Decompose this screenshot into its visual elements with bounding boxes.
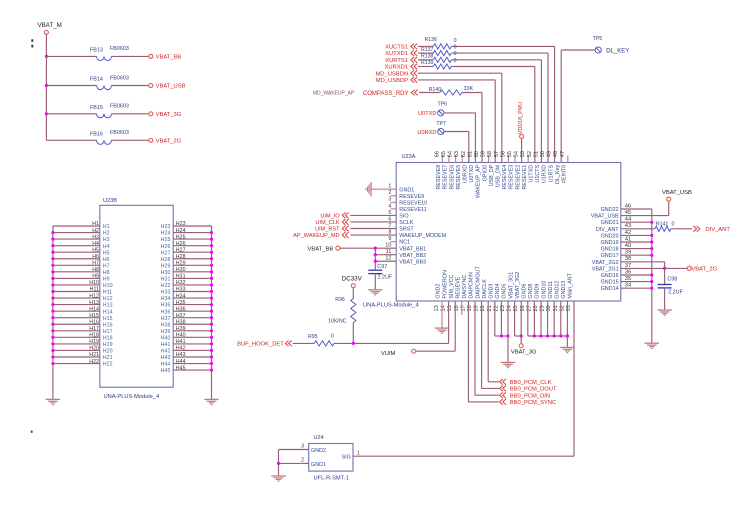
svg-text:H25: H25 bbox=[161, 237, 171, 243]
junction bbox=[210, 349, 213, 352]
svg-text:63: 63 bbox=[454, 151, 460, 157]
svg-text:H8: H8 bbox=[92, 267, 99, 273]
svg-text:U0RXD: U0RXD bbox=[417, 130, 436, 136]
wire bbox=[352, 323, 354, 344]
junction bbox=[51, 296, 54, 299]
net VBAT_3G bbox=[514, 301, 516, 336]
svg-text:NC1: NC1 bbox=[399, 240, 410, 246]
svg-text:MD_USBDP: MD_USBDP bbox=[376, 78, 408, 84]
junction bbox=[210, 310, 213, 313]
junction bbox=[51, 283, 54, 286]
wire bbox=[534, 67, 536, 163]
svg-text:BB0_PCM_SYNC: BB0_PCM_SYNC bbox=[510, 400, 556, 406]
svg-text:GND2: GND2 bbox=[436, 284, 442, 299]
svg-text:GND18: GND18 bbox=[601, 247, 619, 253]
svg-text:52: 52 bbox=[527, 151, 533, 157]
wire right bus stem bbox=[211, 370, 213, 399]
svg-text:50: 50 bbox=[540, 151, 546, 157]
svg-text:13: 13 bbox=[434, 305, 440, 311]
svg-text:VBAT_USB: VBAT_USB bbox=[156, 84, 186, 90]
junction bbox=[650, 273, 653, 276]
junction bbox=[566, 334, 569, 337]
pin H20 bbox=[53, 349, 100, 351]
svg-text:GND8: GND8 bbox=[528, 284, 534, 299]
wire left bus bbox=[52, 226, 54, 364]
svg-text:DAIPCMOUT: DAIPCMOUT bbox=[475, 266, 481, 299]
svg-text:SIM_VCC: SIM_VCC bbox=[449, 275, 455, 299]
svg-text:RESEVE2: RESEVE2 bbox=[515, 165, 521, 190]
svg-text:U1RTS: U1RTS bbox=[548, 164, 554, 182]
svg-text:H42: H42 bbox=[161, 349, 171, 355]
svg-text:#EINT0: #EINT0 bbox=[562, 165, 568, 183]
svg-text:R141: R141 bbox=[656, 222, 669, 228]
svg-text:R139: R139 bbox=[421, 60, 434, 66]
svg-text:0: 0 bbox=[454, 51, 457, 57]
svg-text:47: 47 bbox=[560, 151, 566, 157]
svg-text:H28: H28 bbox=[176, 254, 186, 260]
svg-text:SIG: SIG bbox=[342, 455, 351, 461]
wire bbox=[566, 336, 568, 347]
svg-text:2.2UF: 2.2UF bbox=[378, 274, 393, 280]
svg-text:R137: R137 bbox=[421, 47, 434, 53]
svg-text:H33: H33 bbox=[176, 287, 186, 293]
junction bbox=[210, 369, 213, 372]
pin H18 bbox=[53, 336, 100, 338]
svg-text:Main_ANT: Main_ANT bbox=[568, 272, 574, 298]
svg-text:UNA-PLUS-Module_4: UNA-PLUS-Module_4 bbox=[363, 303, 419, 309]
svg-text:U0RXD: U0RXD bbox=[463, 165, 469, 183]
junction bbox=[51, 342, 54, 345]
svg-text:FB0603: FB0603 bbox=[110, 104, 129, 110]
svg-text:U0TXD: U0TXD bbox=[418, 111, 436, 117]
wire bbox=[350, 214, 396, 216]
svg-text:H31: H31 bbox=[176, 274, 186, 280]
svg-text:H6: H6 bbox=[92, 254, 99, 260]
stub bbox=[514, 155, 516, 162]
pin H43 bbox=[173, 356, 211, 358]
svg-text:0: 0 bbox=[454, 45, 457, 51]
svg-text:0: 0 bbox=[672, 222, 675, 228]
svg-text:C98: C98 bbox=[667, 277, 677, 283]
svg-text:H43: H43 bbox=[161, 355, 171, 361]
svg-text:H44: H44 bbox=[176, 359, 186, 365]
svg-text:GND20: GND20 bbox=[601, 233, 619, 239]
svg-text:UIM_IO: UIM_IO bbox=[320, 214, 340, 220]
svg-text:VBAT_2G2: VBAT_2G2 bbox=[592, 260, 619, 266]
svg-text:VBAT_BB3: VBAT_BB3 bbox=[399, 259, 426, 265]
svg-text:51: 51 bbox=[533, 151, 539, 157]
svg-text:H5: H5 bbox=[103, 250, 110, 256]
svg-text:H32: H32 bbox=[161, 283, 171, 289]
svg-text:H17: H17 bbox=[89, 326, 99, 332]
svg-text:UFL-R-SMT-1: UFL-R-SMT-1 bbox=[314, 476, 349, 482]
svg-text:H42: H42 bbox=[176, 346, 186, 352]
wire bbox=[481, 93, 483, 163]
junction bbox=[559, 334, 562, 337]
border tick 2 bbox=[31, 431, 33, 433]
svg-text:VBAT_BB: VBAT_BB bbox=[308, 246, 334, 252]
pin H6 bbox=[53, 258, 100, 260]
svg-text:RESEVE10: RESEVE10 bbox=[399, 200, 427, 206]
resistor R138 bbox=[418, 59, 434, 61]
svg-text:0: 0 bbox=[331, 334, 334, 340]
svg-text:2: 2 bbox=[301, 458, 304, 464]
svg-text:H34: H34 bbox=[161, 296, 171, 302]
svg-text:H1: H1 bbox=[92, 221, 99, 227]
svg-text:H32: H32 bbox=[176, 280, 186, 286]
wire SIG to Main_ANT bbox=[353, 455, 574, 457]
junction bbox=[51, 264, 54, 267]
connector U23B bbox=[100, 205, 173, 387]
stub bbox=[507, 155, 509, 162]
svg-text:RESEVE8: RESEVE8 bbox=[436, 165, 442, 190]
svg-text:H5: H5 bbox=[92, 247, 99, 253]
ground bbox=[435, 328, 449, 333]
wire VBAT_BB bus bbox=[374, 248, 376, 270]
svg-text:H38: H38 bbox=[176, 319, 186, 325]
svg-text:FB13: FB13 bbox=[90, 47, 103, 53]
junction bbox=[51, 336, 54, 339]
wire GND right group bbox=[527, 301, 529, 336]
svg-text:H10: H10 bbox=[89, 280, 99, 286]
svg-text:XUCTS1: XUCTS1 bbox=[385, 45, 408, 51]
svg-text:UNA-PLUS-Module_4: UNA-PLUS-Module_4 bbox=[104, 394, 160, 400]
junction bbox=[51, 362, 54, 365]
svg-text:H37: H37 bbox=[176, 313, 186, 319]
wire SIM_VCC bbox=[454, 301, 456, 351]
junction bbox=[51, 277, 54, 280]
svg-text:R95: R95 bbox=[308, 334, 318, 340]
stub bbox=[441, 155, 443, 162]
wire bbox=[621, 241, 652, 243]
svg-text:RESEVE1: RESEVE1 bbox=[522, 165, 528, 190]
pin H11 bbox=[53, 291, 100, 293]
wire bbox=[501, 73, 503, 162]
pin H2 bbox=[53, 232, 100, 234]
wire bbox=[350, 228, 396, 230]
svg-text:U24: U24 bbox=[314, 435, 324, 441]
svg-text:VBAT_2G: VBAT_2G bbox=[156, 139, 182, 145]
svg-text:H27: H27 bbox=[161, 250, 171, 256]
junction bbox=[650, 234, 653, 237]
svg-text:GND19: GND19 bbox=[601, 240, 619, 246]
node VBAT_2G bbox=[149, 138, 153, 142]
stub bbox=[488, 155, 490, 162]
resistor R137 bbox=[418, 52, 434, 54]
junction bbox=[51, 244, 54, 247]
svg-text:TP7: TP7 bbox=[436, 121, 446, 127]
junction bbox=[566, 334, 569, 337]
svg-text:3: 3 bbox=[301, 444, 304, 450]
svg-text:60: 60 bbox=[474, 151, 480, 157]
wire GND3 group bbox=[494, 301, 496, 336]
svg-text:U0TXD: U0TXD bbox=[469, 165, 475, 183]
svg-text:GND4: GND4 bbox=[495, 284, 501, 299]
resistor R140 bbox=[419, 92, 440, 94]
svg-text:H26: H26 bbox=[176, 241, 186, 247]
svg-text:H4: H4 bbox=[92, 241, 99, 247]
wire DL_KEY bbox=[561, 49, 595, 51]
junction bbox=[210, 270, 213, 273]
pin H35 bbox=[173, 304, 211, 306]
stub bbox=[461, 155, 463, 162]
pin H38 bbox=[173, 323, 211, 325]
junction bbox=[352, 342, 355, 345]
svg-text:H39: H39 bbox=[161, 329, 171, 335]
svg-text:RESEVE: RESEVE bbox=[456, 276, 462, 298]
wire bbox=[468, 132, 470, 163]
pin H44 bbox=[173, 363, 211, 365]
svg-text:H23: H23 bbox=[176, 221, 186, 227]
stub bbox=[455, 155, 457, 162]
svg-text:SCLK: SCLK bbox=[399, 220, 413, 226]
svg-text:H18: H18 bbox=[89, 333, 99, 339]
svg-text:RESEVE5: RESEVE5 bbox=[456, 165, 462, 190]
svg-text:H20: H20 bbox=[103, 349, 113, 355]
net BB0_PCM_DOUT bbox=[481, 301, 483, 388]
svg-text:H11: H11 bbox=[103, 290, 112, 296]
svg-text:H29: H29 bbox=[176, 261, 186, 267]
junction bbox=[210, 362, 213, 365]
junction bbox=[51, 310, 54, 313]
junction bbox=[210, 251, 213, 254]
svg-text:GND21: GND21 bbox=[601, 220, 619, 226]
pin H24 bbox=[173, 232, 211, 234]
svg-text:U1RXD: U1RXD bbox=[542, 165, 548, 183]
svg-text:H12: H12 bbox=[89, 293, 99, 299]
svg-text:XURXD1: XURXD1 bbox=[384, 65, 408, 71]
svg-text:VBAT_3G: VBAT_3G bbox=[511, 350, 537, 356]
wire bbox=[444, 112, 475, 114]
svg-text:XUTXD1: XUTXD1 bbox=[385, 51, 408, 57]
ground bbox=[204, 399, 218, 404]
ferrite bead FB14 bbox=[46, 85, 96, 87]
wire bbox=[540, 60, 542, 163]
svg-text:DL_Key: DL_Key bbox=[555, 165, 561, 184]
svg-text:H3: H3 bbox=[92, 234, 99, 240]
svg-text:GND2: GND2 bbox=[311, 448, 326, 454]
junction bbox=[539, 334, 542, 337]
svg-text:GND10: GND10 bbox=[541, 281, 547, 299]
svg-text:H41: H41 bbox=[176, 339, 186, 345]
module U23A bbox=[396, 163, 621, 302]
svg-text:VBAT_M: VBAT_M bbox=[38, 22, 62, 29]
svg-text:GND16: GND16 bbox=[601, 273, 619, 279]
svg-text:H6: H6 bbox=[103, 257, 110, 263]
svg-text:H18: H18 bbox=[103, 335, 113, 341]
svg-text:H7: H7 bbox=[103, 263, 110, 269]
svg-text:0: 0 bbox=[454, 58, 457, 64]
junction bbox=[51, 355, 54, 358]
svg-text:COMPASS_RDY: COMPASS_RDY bbox=[363, 91, 409, 97]
stub bbox=[448, 155, 450, 162]
pin H30 bbox=[173, 271, 211, 273]
svg-text:65: 65 bbox=[441, 151, 447, 157]
wire GND2 bbox=[441, 301, 443, 328]
svg-text:FB15: FB15 bbox=[90, 105, 103, 111]
svg-text:GND14: GND14 bbox=[601, 286, 619, 292]
pin H27 bbox=[173, 251, 211, 253]
svg-text:H26: H26 bbox=[161, 244, 171, 250]
svg-text:DC33V: DC33V bbox=[342, 276, 363, 283]
junction bbox=[374, 260, 377, 263]
pin H45 bbox=[173, 369, 211, 371]
svg-text:XURTS1: XURTS1 bbox=[385, 58, 408, 64]
svg-text:H23: H23 bbox=[161, 224, 171, 230]
svg-text:49: 49 bbox=[547, 151, 553, 157]
junction bbox=[51, 238, 54, 241]
svg-text:56: 56 bbox=[500, 151, 506, 157]
pin H32 bbox=[173, 284, 211, 286]
svg-text:GND13: GND13 bbox=[561, 281, 567, 299]
svg-text:62: 62 bbox=[461, 151, 467, 157]
wire bbox=[451, 66, 535, 68]
svg-text:DAICLK: DAICLK bbox=[482, 279, 488, 299]
wire bbox=[375, 254, 396, 256]
svg-text:H13: H13 bbox=[103, 303, 113, 309]
svg-text:C97: C97 bbox=[377, 264, 387, 270]
svg-text:MD_WAKEUP_AP: MD_WAKEUP_AP bbox=[313, 91, 355, 97]
wire bbox=[621, 287, 652, 289]
svg-text:R136: R136 bbox=[425, 37, 438, 43]
junction bbox=[51, 257, 54, 260]
svg-text:H2: H2 bbox=[92, 228, 99, 234]
junction bbox=[45, 112, 48, 115]
net VBAT_2G bbox=[621, 261, 665, 263]
pin H1 bbox=[53, 225, 100, 227]
junction bbox=[210, 316, 213, 319]
svg-text:GND9: GND9 bbox=[535, 284, 541, 299]
svg-text:H38: H38 bbox=[161, 322, 171, 328]
connector U24 bbox=[309, 444, 353, 472]
svg-text:H16: H16 bbox=[103, 322, 113, 328]
wire bbox=[451, 52, 548, 54]
svg-text:55: 55 bbox=[507, 151, 513, 157]
junction bbox=[51, 303, 54, 306]
junction bbox=[210, 355, 213, 358]
junction bbox=[210, 257, 213, 260]
svg-text:H9: H9 bbox=[103, 277, 110, 283]
pin H14 bbox=[53, 310, 100, 312]
net BB0_PCM_DIN bbox=[474, 301, 476, 395]
junction bbox=[506, 334, 509, 337]
resistor R141 bbox=[655, 226, 671, 231]
wire bbox=[554, 46, 556, 162]
pin H25 bbox=[173, 238, 211, 240]
wire bbox=[621, 274, 652, 276]
pin H31 bbox=[173, 277, 211, 279]
ground bbox=[560, 347, 574, 352]
wire bbox=[350, 234, 396, 236]
svg-text:H19: H19 bbox=[89, 339, 99, 345]
wire U24 gnd bbox=[278, 450, 280, 476]
svg-text:FB16: FB16 bbox=[90, 131, 103, 137]
ground bbox=[366, 182, 371, 196]
svg-text:VBAT_2G1: VBAT_2G1 bbox=[592, 266, 619, 272]
wire left bus stem bbox=[52, 364, 54, 400]
border tick bbox=[31, 39, 33, 42]
svg-text:H2: H2 bbox=[103, 231, 110, 237]
pin H9 bbox=[53, 277, 100, 279]
svg-text:H40: H40 bbox=[176, 333, 186, 339]
junction bbox=[51, 349, 54, 352]
svg-text:RESEVE11: RESEVE11 bbox=[399, 207, 426, 213]
svg-text:GND6: GND6 bbox=[522, 284, 528, 299]
pin H16 bbox=[53, 323, 100, 325]
pin H17 bbox=[53, 330, 100, 332]
ground bbox=[645, 343, 659, 348]
svg-text:H31: H31 bbox=[161, 277, 171, 283]
ground bbox=[46, 399, 60, 404]
stub bbox=[567, 155, 569, 162]
pin H4 bbox=[53, 245, 100, 247]
junction bbox=[553, 334, 556, 337]
svg-text:H40: H40 bbox=[161, 335, 171, 341]
wire bbox=[621, 208, 652, 210]
junction bbox=[51, 329, 54, 332]
pin H3 bbox=[53, 238, 100, 240]
svg-text:FB14: FB14 bbox=[90, 77, 103, 83]
ferrite bead FB13 bbox=[46, 55, 96, 57]
wire VBAT_BB bbox=[340, 247, 376, 249]
junction bbox=[51, 231, 54, 234]
svg-text:GND12: GND12 bbox=[555, 281, 561, 299]
svg-text:DL_KEY: DL_KEY bbox=[606, 49, 629, 55]
svg-text:VBAT_3G: VBAT_3G bbox=[156, 112, 182, 118]
svg-text:H20: H20 bbox=[89, 346, 99, 352]
junction bbox=[533, 334, 536, 337]
wire right bus bbox=[211, 226, 213, 370]
svg-text:59: 59 bbox=[481, 151, 487, 157]
wire bbox=[474, 113, 476, 163]
wire bbox=[451, 45, 554, 47]
svg-text:H30: H30 bbox=[161, 270, 171, 276]
pin H26 bbox=[173, 245, 211, 247]
junction bbox=[210, 323, 213, 326]
wire GND bus right bbox=[651, 209, 653, 343]
svg-text:TP5: TP5 bbox=[593, 36, 603, 42]
pin H15 bbox=[53, 317, 100, 319]
svg-text:33K: 33K bbox=[464, 86, 474, 92]
wire bbox=[418, 72, 502, 74]
svg-text:VBAT_3G2: VBAT_3G2 bbox=[515, 272, 521, 299]
pin H34 bbox=[173, 297, 211, 299]
junction bbox=[374, 247, 377, 250]
junction bbox=[45, 84, 48, 87]
ground bbox=[657, 310, 671, 315]
node VBAT_3G bbox=[149, 112, 153, 116]
pin H40 bbox=[173, 336, 211, 338]
pin H42 bbox=[173, 349, 211, 351]
wire bbox=[334, 342, 353, 344]
wire bbox=[671, 228, 692, 230]
wire bbox=[621, 234, 652, 236]
svg-text:VBAT_BB1: VBAT_BB1 bbox=[399, 246, 426, 252]
svg-text:H28: H28 bbox=[161, 257, 171, 263]
svg-text:WAKEUP_MODEM: WAKEUP_MODEM bbox=[399, 233, 446, 239]
svg-text:H24: H24 bbox=[161, 231, 171, 237]
node VBAT_USB bbox=[149, 84, 153, 88]
svg-text:H36: H36 bbox=[176, 306, 186, 312]
svg-text:H21: H21 bbox=[103, 355, 113, 361]
svg-text:VBAT_BB: VBAT_BB bbox=[156, 55, 182, 61]
junction bbox=[51, 251, 54, 254]
pin H22 bbox=[53, 363, 100, 365]
svg-text:2.2UF: 2.2UF bbox=[668, 290, 683, 296]
svg-text:10K/NC: 10K/NC bbox=[328, 318, 346, 324]
svg-text:VDD18_PMU: VDD18_PMU bbox=[518, 102, 524, 134]
svg-text:FB0603: FB0603 bbox=[110, 75, 129, 81]
